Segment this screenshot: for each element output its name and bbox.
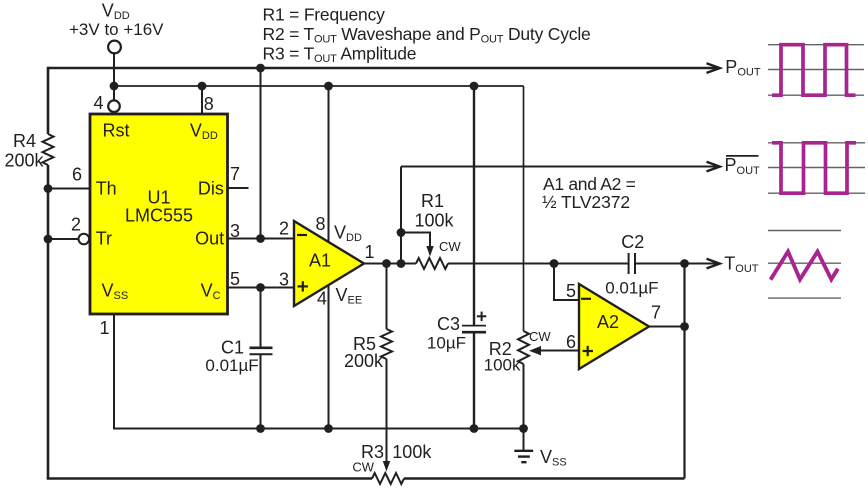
A2 minus sign — [581, 298, 591, 300]
node: Vdd drop on rail — [110, 82, 119, 91]
wire: R1 wiper branch — [401, 233, 430, 248]
wire: pin 7 Dis stub — [228, 187, 249, 189]
R1 wiper arrowhead — [426, 246, 433, 257]
svg-text:100k: 100k — [484, 355, 521, 374]
wire: pin 1 Vss down — [113, 314, 115, 429]
potentiometer R1 — [416, 258, 448, 269]
svg-text:R1: R1 — [421, 191, 444, 211]
wire: Pbar line riser — [400, 167, 402, 264]
svg-text:0.01µF: 0.01µF — [605, 279, 658, 298]
arrowhead Pout — [707, 63, 720, 73]
wire: R2 wiper to A2 pin 6 — [541, 350, 579, 352]
svg-text:R1 = Frequency: R1 = Frequency — [263, 4, 386, 24]
svg-text:3: 3 — [279, 270, 289, 290]
svg-text:6: 6 — [566, 332, 576, 352]
wire: R2 branch from Vdd rail — [523, 86, 525, 331]
svg-text:CW: CW — [439, 239, 461, 254]
svg-text:R2 = TOUT Waveshape and POUT D: R2 = TOUT Waveshape and POUT Duty Cycle — [263, 24, 591, 46]
svg-text:C3: C3 — [437, 314, 460, 334]
svg-text:100k: 100k — [414, 210, 454, 230]
svg-text:Rst: Rst — [103, 121, 130, 141]
wire: Out to Pout rail vertical — [260, 68, 262, 239]
arrowhead Tout — [707, 259, 720, 269]
node: A2 pin5 tee on Tout line — [550, 259, 559, 268]
wire: Tout line R1 to C2 — [448, 263, 628, 265]
svg-text:7: 7 — [651, 302, 661, 322]
svg-text:100k: 100k — [392, 442, 432, 462]
wire: C3 branch upper — [473, 86, 475, 325]
ground symbol Vss — [514, 450, 533, 452]
wire: left rail upper — [47, 67, 50, 134]
node: A2 out junction — [680, 322, 689, 331]
wire: A1 pin 8 Vdd drop — [328, 86, 330, 243]
svg-text:U1: U1 — [147, 188, 170, 208]
wire: internal ground rail — [113, 428, 524, 430]
svg-text:4: 4 — [93, 93, 103, 113]
svg-text:CW: CW — [529, 329, 551, 344]
arrowhead Pbar — [707, 162, 720, 172]
svg-text:A1 and A2 =: A1 and A2 = — [543, 174, 636, 194]
svg-text:200k: 200k — [344, 351, 384, 371]
svg-text:5: 5 — [566, 281, 576, 301]
svg-text:C2: C2 — [621, 232, 644, 252]
svg-text:3: 3 — [230, 221, 240, 241]
svg-text:A2: A2 — [597, 312, 619, 332]
svg-text:VEE: VEE — [336, 285, 363, 307]
svg-text:10µF: 10µF — [427, 334, 466, 353]
svg-text:VSS: VSS — [540, 447, 567, 469]
svg-text:R4: R4 — [13, 131, 36, 151]
C3 plus sign — [477, 315, 486, 317]
op-amp A1 — [294, 221, 364, 306]
waveform Pout — [768, 45, 864, 95]
terminal circle Vdd — [108, 41, 121, 54]
A1 minus sign — [297, 234, 307, 236]
node: Out junction — [256, 234, 265, 243]
svg-text:POUT: POUT — [725, 57, 761, 79]
svg-text:5: 5 — [230, 269, 240, 289]
svg-text:2: 2 — [71, 215, 81, 235]
wire: pin 8 drop — [201, 86, 203, 114]
node: C1 on ground rail — [256, 424, 265, 433]
node: R2 on ground rail — [519, 424, 528, 433]
wire: Pout top rail — [48, 67, 717, 70]
svg-text:8: 8 — [204, 94, 214, 114]
wire: pin 3 Out to A1 — [228, 238, 295, 240]
pin 2 open circle — [79, 234, 90, 245]
svg-text:7: 7 — [230, 164, 240, 184]
svg-text:R3 = TOUT Amplitude: R3 = TOUT Amplitude — [263, 44, 417, 66]
svg-text:1: 1 — [365, 242, 375, 262]
svg-text:A1: A1 — [309, 251, 331, 271]
waveform Pbar — [768, 143, 865, 193]
R3 wiper arrowhead — [383, 461, 390, 472]
svg-text:+3V to +16V: +3V to +16V — [69, 20, 164, 39]
svg-text:4: 4 — [317, 288, 327, 308]
capacitor C2 — [628, 253, 630, 274]
potentiometer R2 — [518, 331, 529, 364]
svg-text:LMC555: LMC555 — [125, 206, 193, 226]
capacitor C3 — [462, 325, 486, 327]
svg-text:CW: CW — [352, 460, 374, 475]
wire: right riser to Tout line — [683, 264, 685, 479]
wire: A2 pin 5 branch — [554, 264, 579, 301]
wire: C3 branch lower — [473, 332, 475, 428]
svg-text:C1: C1 — [221, 338, 244, 358]
node: Vc junction C1 — [256, 283, 265, 292]
wire: pin 6 Th — [48, 188, 90, 190]
node: Out to Pout rail — [256, 64, 265, 73]
svg-text:Th: Th — [96, 179, 117, 199]
wire: left rail lower — [47, 165, 50, 479]
R2 wiper arrowhead — [529, 346, 541, 355]
wire: R5 bottom to R3 wiper — [386, 359, 388, 462]
wire: A2 pin 7 output — [649, 326, 685, 328]
node: C3 on Vdd rail — [470, 82, 479, 91]
wire: R2 bottom to ground — [523, 364, 525, 451]
wire: Vdd second rail — [114, 85, 524, 87]
wire: Vdd terminal drop — [113, 54, 115, 101]
wire: A1 output / Tout line left of R1 — [364, 263, 416, 265]
A1 plus sign — [298, 285, 309, 287]
node: Tr on left rail — [44, 235, 53, 244]
resistor R5 — [381, 329, 392, 359]
svg-text:VDD: VDD — [334, 222, 362, 244]
node: R5 on Tout line — [382, 259, 391, 268]
Pbar overline — [726, 155, 759, 157]
node: Tout right junction — [680, 259, 689, 268]
pin 4 open circle — [108, 100, 120, 112]
svg-text:½ TLV2372: ½ TLV2372 — [542, 192, 630, 212]
svg-text:Out: Out — [195, 229, 224, 249]
node: R1 wiper tee — [397, 228, 406, 237]
A2 plus sign — [583, 350, 594, 352]
wire: pin 2 Tr — [48, 238, 79, 240]
node: A1 pin4 on ground rail — [324, 424, 333, 433]
wire: A1 pin 4 Vee drop — [328, 285, 330, 429]
node: C3 on ground rail — [470, 424, 479, 433]
node: R1 riser on Tout line — [397, 259, 406, 268]
wire: pin 5 Vc to A1 plus — [228, 287, 295, 289]
resistor R4 — [43, 134, 54, 165]
svg-text:1: 1 — [100, 318, 110, 338]
wire: C1 bottom lead — [260, 354, 262, 428]
svg-text:8: 8 — [316, 214, 326, 234]
svg-text:200k: 200k — [4, 150, 44, 170]
wire: bottom Tout feedback rail left — [47, 477, 372, 480]
svg-text:Dis: Dis — [198, 179, 224, 199]
svg-text:6: 6 — [72, 165, 82, 185]
svg-text:TOUT: TOUT — [724, 254, 759, 276]
node: A1 pin8 on Vdd rail — [324, 82, 333, 91]
svg-text:POUT: POUT — [725, 155, 761, 177]
wire: bottom rail right — [404, 477, 685, 480]
op-amp A2 — [579, 284, 649, 369]
capacitor C1 — [250, 346, 273, 349]
svg-text:0.01µF: 0.01µF — [205, 356, 258, 375]
waveform Tout triangle — [768, 231, 841, 299]
svg-text:2: 2 — [279, 218, 289, 238]
wire: C1 top lead — [260, 288, 262, 348]
node: pin8 on Vdd rail — [198, 82, 207, 91]
wire: Pbar output line — [401, 166, 717, 168]
svg-text:Tr: Tr — [96, 229, 112, 249]
wire: Tout line C2 to arrow — [636, 263, 717, 265]
IC U1 LMC555 body — [90, 114, 228, 314]
wire: R5 top lead — [386, 264, 388, 330]
resistor R3 — [372, 473, 404, 484]
node: Th on left rail — [44, 184, 53, 193]
